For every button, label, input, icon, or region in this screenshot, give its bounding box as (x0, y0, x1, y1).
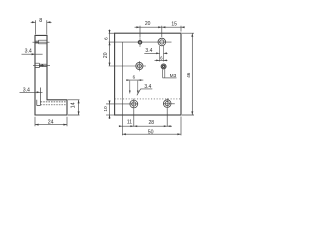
M3 tapped hole (161, 64, 166, 69)
svg-text:14: 14 (71, 102, 77, 108)
svg-text:50: 50 (148, 129, 154, 135)
lower hole (section, left view) (35, 63, 47, 67)
svg-text:20: 20 (145, 21, 151, 27)
bottom dim 50 (122, 117, 181, 136)
svg-text:20: 20 (103, 52, 109, 58)
svg-text:11: 11 (127, 120, 132, 126)
left dimension 20 (109, 42, 111, 66)
svg-text:6: 6 (133, 75, 136, 80)
bottom-right hole (163, 100, 171, 108)
right dim 46 (182, 33, 194, 115)
left dimension 6 (109, 32, 115, 34)
bottom-left counterbore hole (130, 100, 138, 108)
leader arrow lower hole (40, 64, 44, 66)
dim 6 at bottom-left hole (130, 81, 138, 94)
bend line (dotted) (115, 98, 181, 100)
datum column line (121, 42, 123, 135)
svg-text:15: 15 (171, 21, 177, 27)
left dimension 10 (109, 101, 111, 120)
left view: L-bracket outline (35, 35, 67, 115)
svg-text:3.4: 3.4 (145, 48, 152, 54)
center hole (counterbore) (136, 62, 143, 69)
svg-text:24: 24 (48, 119, 54, 125)
top dimension 20 / 15 (135, 26, 185, 38)
dimension 14 (right of foot) (68, 100, 80, 115)
counterbore in foot (37, 88, 41, 106)
hidden hole in foot (dashed) (41, 102, 67, 105)
svg-text:8: 8 (39, 18, 42, 24)
center line lower hole (33, 64, 50, 66)
bottom dims 11 / 28 (120, 109, 173, 127)
svg-text:28: 28 (149, 120, 155, 126)
top-right counterbore hole (158, 38, 166, 46)
dimension 3.4 upper leader (22, 53, 43, 55)
svg-text:3.4: 3.4 (25, 49, 32, 55)
svg-text:10: 10 (103, 106, 109, 112)
dim 3.4 at top-right hole (160, 46, 164, 62)
dimension 24 (bottom of left view) (35, 117, 67, 127)
svg-text:3.4: 3.4 (23, 87, 30, 93)
hole row center lines (109, 41, 172, 43)
right view: plate outline (115, 33, 181, 115)
dimension 8 (top of left view) (31, 20, 52, 34)
svg-text:M3: M3 (170, 73, 177, 79)
dimension 3.4 lower leader (20, 91, 43, 93)
svg-text:3.4: 3.4 (144, 84, 151, 90)
center line upper hole (33, 41, 50, 43)
top-left small hole (138, 41, 141, 44)
svg-text:6: 6 (103, 37, 108, 40)
upper counterbore hole (section, left view) (35, 40, 47, 44)
svg-text:6: 6 (160, 55, 163, 60)
M3 leader (163, 77, 177, 79)
svg-text:46: 46 (186, 72, 191, 78)
dim 6 at M3 hole (155, 59, 168, 61)
3.4 leader bottom-left (137, 89, 152, 95)
